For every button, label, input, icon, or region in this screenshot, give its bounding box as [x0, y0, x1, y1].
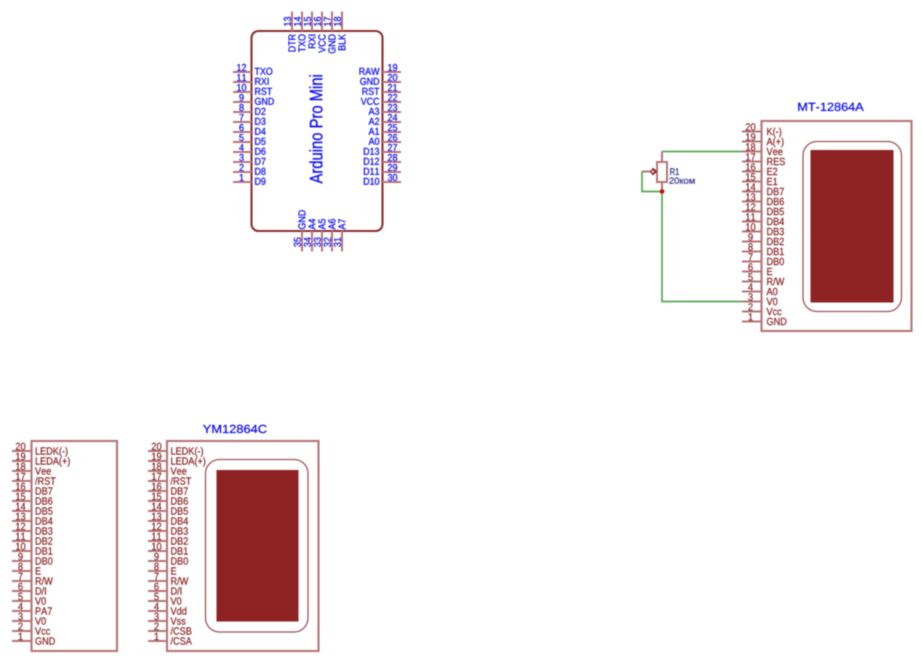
DS2 pin 8 (E)	[12, 563, 41, 575]
DS1 pin 8 (DB1)	[742, 243, 784, 255]
R1 reference label	[670, 168, 679, 175]
DS3 pin 8 (E)	[148, 563, 176, 575]
DS3 pin 18 (Vee)	[148, 463, 186, 475]
LCD module DS1 MT-12864A title	[798, 103, 863, 111]
DS1 pin 9 (DB2)	[742, 233, 784, 245]
DS2 pin 13 (DB4)	[12, 513, 53, 525]
U1 pin 8 (D2) left	[233, 104, 265, 115]
DS3 pin 6 (D/I)	[148, 583, 181, 595]
DS1 pin 1 (GND)	[742, 313, 786, 325]
DS2 pin 5 (V0)	[12, 593, 46, 605]
DS1 pin 11 (DB4)	[742, 213, 784, 225]
IC U1 Arduino Pro Mini body	[252, 31, 383, 231]
U1 pin 23 (A3) right	[369, 104, 401, 115]
DS3 pin 20 (LEDK(-))	[148, 443, 203, 457]
DS3 pin 15 (DB6)	[148, 493, 188, 505]
U1 pin 20 (GND) right	[360, 74, 401, 85]
LCD module DS3 YM12864C title	[203, 425, 267, 433]
U1 pin 18 (BLK) top	[334, 12, 346, 51]
U1 pin 27 (D13) right	[364, 144, 401, 155]
U1 pin 11 (RXI) left	[233, 74, 269, 85]
U1 pin 21 (RST) right	[363, 84, 402, 95]
DS2 pin 12 (DB3)	[12, 523, 52, 535]
DS3 pin 11 (DB2)	[148, 533, 188, 545]
DS1 pin 2 (Vcc)	[742, 303, 782, 315]
U1 pin 25 (A1) right	[369, 124, 401, 135]
U1 pin 6 (D4) left	[233, 124, 266, 135]
DS1 pin 18 (Vee)	[742, 143, 782, 155]
U1 pin 1 (D9) left	[233, 174, 265, 185]
U1 pin 12 (TXO) left	[233, 64, 272, 75]
DS3 pin 9 (DB0)	[148, 553, 188, 565]
DS1 screen bezel	[803, 142, 902, 312]
U1 pin 30 (D10) right	[364, 174, 401, 185]
DS3 screen area	[217, 470, 299, 622]
LCD module DS2 body (left YM12864C)	[32, 441, 118, 651]
DS1 pin 3 (V0)	[742, 293, 777, 305]
DS3 pin 7 (R/W)	[148, 573, 188, 585]
DS1 pin 16 (E2)	[742, 163, 777, 175]
U1 pin 33 (A5) bottom	[314, 219, 326, 252]
U1 pin 10 (RST) left	[233, 84, 272, 95]
DS3 pin 14 (DB5)	[148, 503, 188, 515]
U1 pin 34 (A4) bottom	[304, 219, 316, 252]
U1 pin 28 (D12) right	[364, 154, 401, 165]
DS3 pin 19 (LEDA(+))	[148, 453, 205, 467]
DS3 screen bezel	[206, 460, 309, 633]
DS2 pin 4 (PA7)	[12, 603, 52, 615]
DS2 pin 17 (/RST)	[12, 473, 56, 485]
DS1 pin 13 (DB6)	[742, 193, 784, 205]
U1 pin 14 (TXO) top	[294, 12, 306, 53]
DS2 pin 20 (LEDK(-))	[12, 443, 68, 457]
U1 pin 19 (RAW) right	[360, 64, 402, 75]
U1 pin 26 (A0) right	[369, 134, 401, 145]
DS2 pin 14 (DB5)	[12, 503, 52, 515]
DS3 pin 10 (DB1)	[148, 543, 188, 555]
wire R1 top to DS1 pin 18 Vee	[662, 151, 742, 153]
DS1 pin 6 (E)	[742, 263, 772, 275]
U1 label "Arduino Pro Mini"	[309, 75, 322, 183]
U1 pin 13 (DTR) top	[284, 12, 296, 52]
DS2 pin 18 (Vee)	[12, 463, 51, 475]
U1 pin 29 (D11) right	[364, 164, 401, 175]
U1 pin 9 (GND) left	[233, 94, 274, 105]
U1 pin 31 (A7) bottom	[334, 219, 346, 251]
LCD module DS1 MT-12864A body	[762, 121, 912, 331]
DS3 pin 12 (DB3)	[148, 523, 188, 535]
DS1 pin 19 (A(+))	[742, 133, 784, 147]
DS3 pin 17 (/RST)	[148, 473, 191, 485]
U1 pin 35 (GND) bottom	[294, 210, 306, 251]
DS2 pin 2 (Vcc)	[12, 623, 50, 635]
U1 pin 32 (A6) bottom	[324, 219, 336, 252]
U1 pin 16 (VCC) top	[314, 12, 326, 53]
DS3 pin 4 (Vdd)	[148, 603, 186, 615]
U1 pin 22 (VCC) right	[361, 94, 401, 105]
DS1 pin 5 (R/W)	[742, 273, 784, 285]
U1 pin 5 (D5) left	[233, 134, 266, 145]
U1 pin 17 (GND) top	[324, 12, 336, 54]
DS1 pin 20 (K(-))	[742, 123, 781, 137]
U1 pin 15 (RXI) top	[304, 12, 315, 49]
DS1 pin 4 (A0)	[742, 283, 777, 295]
DS2 pin 1 (GND)	[12, 633, 55, 645]
resistor R1 body (potentiometer)	[657, 152, 667, 192]
DS1 screen area	[811, 150, 894, 303]
DS2 pin 9 (DB0)	[12, 553, 52, 565]
U1 pin 3 (D7) left	[233, 154, 265, 165]
DS3 pin 13 (DB4)	[148, 513, 188, 525]
wire R1 wiper loop down to junction	[642, 172, 662, 192]
DS3 pin 2 (/CSB)	[148, 623, 191, 635]
DS1 pin 15 (E1)	[742, 173, 777, 185]
DS1 pin 7 (DB0)	[742, 253, 784, 265]
DS1 pin 10 (DB3)	[742, 223, 784, 235]
junction node at R1 bottom/wiper	[660, 189, 665, 194]
U1 pin 4 (D6) left	[233, 144, 266, 155]
U1 pin 7 (D3) left	[233, 114, 266, 125]
DS3 pin 16 (DB7)	[148, 483, 188, 495]
DS2 pin 7 (R/W)	[12, 573, 53, 585]
DS3 pin 1 (/CSA)	[148, 633, 192, 645]
DS1 pin 17 (RES)	[742, 153, 785, 165]
R1 wiper arm	[642, 168, 657, 175]
DS2 pin 10 (DB1)	[12, 543, 52, 555]
wire junction down and right to DS1 pin 3 V0	[662, 192, 742, 302]
DS3 pin 3 (Vss)	[148, 613, 185, 625]
DS2 pin 3 (V0)	[12, 613, 46, 625]
DS2 pin 19 (LEDA(+))	[12, 453, 70, 467]
DS2 pin 6 (D/I)	[12, 583, 46, 595]
U1 pin 24 (A2) right	[369, 114, 401, 125]
LCD module DS3 body	[167, 441, 319, 651]
DS2 pin 11 (DB2)	[12, 533, 52, 545]
DS2 pin 16 (DB7)	[12, 483, 52, 495]
R1 value label 20ком	[669, 177, 694, 183]
DS2 pin 15 (DB6)	[12, 493, 52, 505]
DS1 pin 12 (DB5)	[742, 203, 784, 215]
U1 pin 2 (D8) left	[233, 164, 266, 175]
DS3 pin 5 (V0)	[148, 593, 181, 605]
DS1 pin 14 (DB7)	[742, 183, 784, 195]
